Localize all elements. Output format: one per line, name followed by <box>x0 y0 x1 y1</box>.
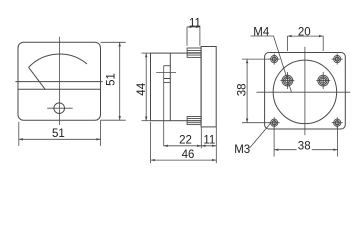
dim 11 top: arrows <box>187 26 200 28</box>
dim 44 left: extension lines <box>142 52 151 54</box>
svg-text:11: 11 <box>203 134 215 146</box>
dim 22/11 bottom: extension lines <box>200 127 202 148</box>
M3 label leader line <box>250 123 271 148</box>
dim 51 bottom: arrows <box>19 138 101 140</box>
svg-text:38: 38 <box>298 140 311 152</box>
dim 38 left: arrows <box>246 59 248 123</box>
side view terminal stud rungs <box>164 66 171 83</box>
dim 51 right: top extension line <box>101 41 126 43</box>
dim 38 bottom: arrows <box>274 149 337 151</box>
dim 20 top: extension lines <box>286 36 288 51</box>
dim 51 right: arrows <box>119 42 121 120</box>
dim 51 right: bottom extension line <box>101 119 126 121</box>
side view terminal stud centerline <box>156 71 176 73</box>
dim 20 top: arrows <box>287 35 323 37</box>
dim 22/11 bottom: arrows <box>164 145 217 147</box>
M3 corner screw bottom-right <box>332 117 343 128</box>
M3 corner screw top-left <box>269 54 280 65</box>
dim 38 left: dimension line <box>246 59 248 123</box>
dim 46 bottom: arrows <box>151 159 217 161</box>
svg-text:22: 22 <box>179 134 192 146</box>
dim 51 right: dimension line <box>119 42 121 120</box>
dim 44 left: dimension line <box>145 53 147 121</box>
dim 11 top: dimension line <box>187 26 200 28</box>
dim 38 left: extension lines <box>242 58 271 60</box>
zero adjuster circle <box>54 103 65 114</box>
svg-text:38: 38 <box>237 83 249 96</box>
dim 44 left: arrows <box>145 53 147 121</box>
M3 corner screw top-right <box>332 54 343 65</box>
svg-text:M4: M4 <box>253 26 270 38</box>
M3 corner screw bottom-left <box>269 117 280 128</box>
dim 51 bottom: left extension line <box>18 122 20 146</box>
dim 11 top: extension lines <box>186 27 188 46</box>
svg-text:11: 11 <box>189 18 201 30</box>
dim 51 bottom: dimension line <box>19 138 101 140</box>
svg-text:M3: M3 <box>234 144 250 156</box>
front view bezel outline <box>18 42 101 120</box>
dim 38 bottom: dimension line <box>274 149 337 151</box>
side view top mounting stud (threaded) <box>187 48 201 57</box>
dial window lower line <box>15 81 102 83</box>
side view bottom mounting stud (threaded) <box>187 117 201 125</box>
svg-text:51: 51 <box>52 128 65 140</box>
M4 terminal stud right <box>316 72 330 89</box>
back view vertical centerline <box>304 47 306 135</box>
back view body circle <box>273 60 337 124</box>
svg-text:46: 46 <box>182 149 195 161</box>
side view case seam line <box>169 53 171 121</box>
dial scale arc <box>29 54 88 67</box>
dim 20 top: dimension line <box>287 35 323 37</box>
side view terminal stud left edge <box>163 66 165 147</box>
side view body outline <box>151 53 202 121</box>
dim 46 bottom: dimension line <box>151 159 217 161</box>
svg-text:51: 51 <box>105 73 117 86</box>
meter needle <box>29 67 46 89</box>
back view plate outline <box>265 53 346 130</box>
svg-text:20: 20 <box>298 26 311 38</box>
text 38 bottom <box>297 140 312 151</box>
zero adjuster horizontal centerline <box>47 107 72 109</box>
M4 terminal stud left <box>280 72 294 89</box>
dim 46 bottom: extension lines <box>150 122 152 163</box>
svg-text:44: 44 <box>136 82 148 95</box>
front panel lower line <box>18 88 101 90</box>
dim 38 bottom: extension lines <box>273 126 275 157</box>
dim 22/11 bottom: dimension line <box>164 145 217 147</box>
dim 51 bottom: right extension line <box>100 120 102 146</box>
side view bezel outline <box>201 47 216 127</box>
M4 label leader line <box>251 36 292 92</box>
back view horizontal centerline <box>257 91 351 93</box>
front view vertical centerline <box>58 37 60 125</box>
